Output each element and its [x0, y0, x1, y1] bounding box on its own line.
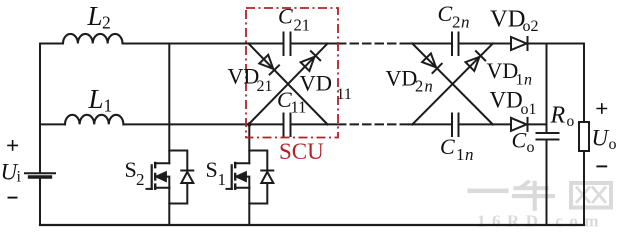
transistor S2 drain wire — [168, 44, 170, 164]
svg-text:L: L — [88, 84, 104, 114]
svg-text:i: i — [17, 169, 22, 186]
capacitor C11 — [284, 114, 291, 137]
svg-text:1: 1 — [456, 145, 465, 164]
svg-text:o: o — [567, 113, 575, 130]
diode VDo2 — [511, 37, 528, 50]
label Uo minus — [596, 165, 607, 167]
capacitor C21 — [284, 33, 291, 56]
svg-text:C: C — [278, 3, 293, 28]
svg-text:C: C — [438, 1, 453, 26]
capacitor Co — [537, 133, 559, 140]
wire cell2 diagonal descending — [412, 44, 493, 125]
svg-text:S: S — [125, 157, 137, 182]
label Uo plus — [596, 103, 607, 114]
svg-text:2: 2 — [415, 77, 423, 96]
wire left vertical — [39, 44, 41, 226]
label Ui minus — [8, 197, 18, 199]
wire top rail dashed — [338, 43, 409, 45]
svg-text:o2: o2 — [523, 18, 539, 35]
svg-text:S: S — [206, 157, 218, 182]
svg-text:1: 1 — [516, 72, 524, 89]
voltage source Ui battery — [25, 173, 55, 177]
diode VDo1 — [511, 118, 528, 131]
diode VD2n — [422, 53, 442, 73]
transistor S1 drain wire — [248, 124, 250, 163]
wire cell2 diagonal ascending — [412, 44, 493, 125]
wire output capacitor branch vertical — [546, 44, 548, 226]
svg-text:VD: VD — [300, 71, 333, 96]
SCU dash-dot box — [246, 8, 338, 138]
wire cell1 diagonal ascending — [249, 44, 328, 125]
svg-text:n: n — [425, 77, 433, 96]
wire middle rail segment F (VDo1 to Co branch) — [528, 123, 547, 125]
svg-text:1: 1 — [104, 96, 113, 116]
diode VD21 — [259, 55, 279, 75]
body diode of S2 — [169, 151, 193, 204]
diode VD11 — [301, 51, 321, 71]
svg-text:21: 21 — [257, 78, 273, 95]
diode VD1n — [466, 51, 486, 71]
svg-text:o: o — [609, 136, 617, 153]
svg-text:1: 1 — [218, 170, 227, 189]
svg-text:VD: VD — [228, 64, 260, 89]
svg-text:VD: VD — [490, 6, 525, 33]
svg-text:n: n — [524, 72, 532, 89]
capacitor C1n — [452, 114, 459, 137]
svg-text:C: C — [440, 134, 455, 159]
resistor Ro — [579, 122, 589, 151]
svg-text:n: n — [461, 13, 470, 32]
wire top rail segment D (cell2 left to C2n) — [409, 43, 452, 45]
svg-text:o: o — [527, 139, 535, 156]
svg-text:VD: VD — [490, 88, 523, 113]
node junction S1 drain — [247, 122, 251, 126]
wire bottom rail — [40, 224, 584, 226]
wire top rail segment C (C21 to cell1 right) — [291, 43, 337, 45]
svg-text:2: 2 — [452, 13, 461, 32]
svg-text:VD: VD — [386, 65, 418, 90]
svg-text:2: 2 — [102, 13, 111, 33]
label Ui plus — [7, 140, 18, 151]
wire top rail segment E (C2n to VDo2) — [459, 43, 512, 45]
wire middle rail segment D (cell2 left to C1n) — [409, 123, 452, 125]
transistor S1 source wire — [248, 188, 250, 225]
svg-text:SCU: SCU — [279, 139, 324, 164]
wire middle rail segment A (source to L1) — [40, 123, 65, 125]
svg-text:R: R — [550, 102, 566, 128]
wire middle rail segment E (C1n to VDo1) — [459, 123, 512, 125]
wire top rail segment A (source to L2) — [40, 43, 63, 45]
wire cell1 diagonal descending — [249, 44, 328, 125]
wire top rail segment F (VDo2 to top right corner) — [528, 43, 585, 45]
wire middle rail segment B (L1 to C11) — [124, 123, 284, 125]
svg-text:U: U — [592, 126, 610, 151]
svg-text:L: L — [87, 1, 103, 31]
wire middle rail segment C (C11 to cell1 right) — [291, 123, 337, 125]
inductor L2 — [63, 34, 123, 44]
transistor S2 — [147, 163, 170, 189]
svg-text:n: n — [465, 145, 474, 164]
svg-text:2: 2 — [136, 170, 145, 189]
inductor L1 — [65, 115, 123, 125]
svg-text:o1: o1 — [521, 101, 537, 118]
capacitor C2n — [452, 33, 459, 56]
body diode of S1 — [249, 151, 273, 204]
svg-text:VD: VD — [487, 58, 519, 83]
svg-text:11: 11 — [337, 86, 352, 103]
transistor S1 — [227, 163, 250, 189]
wire load branch vertical — [583, 44, 585, 226]
svg-text:C: C — [512, 128, 527, 153]
svg-text:16RD.com: 16RD.com — [477, 212, 605, 231]
watermark 一牛网 drawn as shapes — [468, 180, 612, 211]
svg-text:21: 21 — [294, 16, 311, 35]
wire top rail segment B (L2 to C21) — [123, 43, 284, 45]
svg-text:11: 11 — [291, 98, 307, 117]
wire middle rail dashed — [338, 123, 409, 125]
transistor S2 source wire — [168, 188, 170, 225]
